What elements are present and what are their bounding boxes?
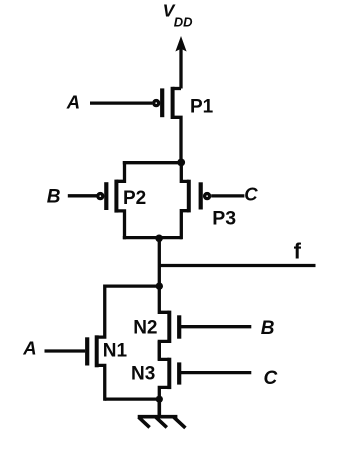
wire P3 source/drain jogs [181, 161, 189, 239]
transistor N3 [169, 358, 179, 389]
node junction dot s2 [155, 235, 163, 243]
power VDD label [163, 1, 194, 30]
wire N3 drain/source jogs [159, 341, 169, 401]
svg-text:N1: N1 [103, 341, 128, 362]
wire output f [159, 264, 315, 267]
wire NMOS top rail [105, 284, 160, 287]
wire top rail of P2/P3 [123, 161, 182, 164]
svg-text:P3: P3 [212, 208, 236, 230]
wire P2 source/drain jogs [116, 161, 124, 239]
svg-text:f: f [294, 238, 302, 263]
svg-text:A: A [66, 92, 80, 113]
transistor P3 [189, 180, 210, 213]
wire N1 drain/source jogs [97, 285, 105, 401]
wire gate A to N1 [45, 349, 86, 352]
transistor N1 [87, 335, 97, 367]
wire gate N3 to C [181, 371, 251, 374]
wire P1 drain to node s1 [173, 117, 181, 162]
node junction dot s1 [177, 159, 185, 167]
transistor N2 [169, 311, 179, 343]
svg-text:B: B [261, 318, 275, 339]
wire P1 source stub [173, 87, 181, 90]
wire gate A to P1 [90, 101, 152, 104]
ground [138, 399, 186, 428]
svg-text:A: A [22, 338, 36, 359]
wire N2 drain/source jogs [159, 285, 169, 361]
node junction dot s4 [156, 396, 163, 403]
svg-text:P1: P1 [190, 97, 214, 118]
wire gate C to P3 [211, 194, 244, 197]
svg-text:B: B [47, 186, 61, 207]
svg-text:C: C [264, 368, 278, 389]
power VDD arrow [175, 36, 186, 89]
transistor P2 [98, 180, 117, 213]
node junction dot s3 [156, 282, 163, 289]
wire bottom rail of P2/P3 [123, 236, 182, 239]
svg-text:P2: P2 [123, 188, 146, 209]
wire NMOS bottom rail [105, 397, 160, 400]
wire gate B to P2 [68, 194, 97, 197]
svg-text:N2: N2 [133, 317, 157, 338]
wire output node vertical [158, 238, 161, 288]
svg-text:N3: N3 [131, 363, 155, 384]
wire gate N2 to B [181, 325, 251, 328]
svg-text:C: C [244, 184, 258, 205]
transistor P1 [154, 87, 173, 119]
svg-text:DD: DD [174, 15, 193, 30]
